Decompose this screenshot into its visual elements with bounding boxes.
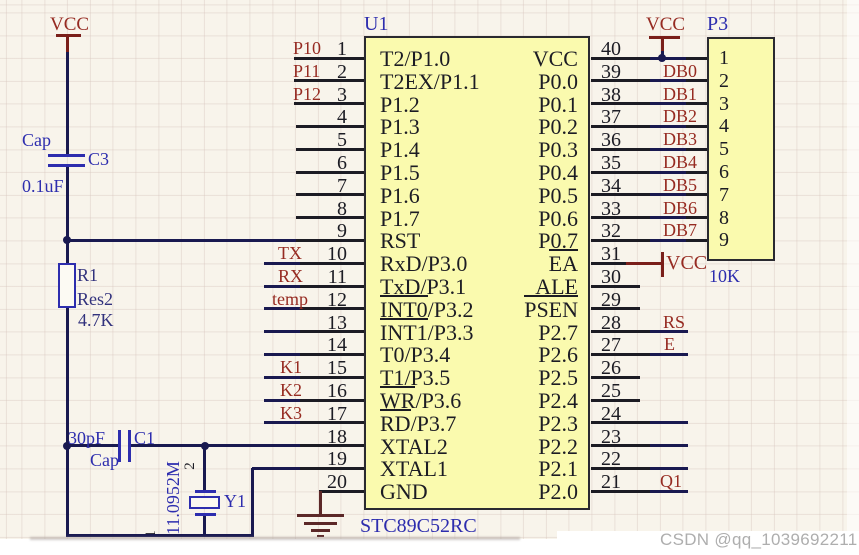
U1 pin 39	[591, 79, 650, 82]
U1 pin 11	[264, 285, 300, 288]
U1 pin 24	[591, 421, 650, 424]
ground	[319, 491, 322, 514]
value 0.1uF	[22, 176, 64, 194]
U1 pin 12	[264, 307, 300, 310]
U1 pin 1	[294, 57, 365, 60]
net label DB1	[663, 84, 697, 102]
wire	[66, 52, 69, 155]
U1 pin 22	[591, 467, 650, 470]
U1 pin 27	[591, 353, 650, 356]
capacitor C1	[118, 430, 121, 462]
P3 pin 9	[686, 239, 707, 242]
value 10K	[709, 266, 740, 284]
P3 pin 6	[686, 171, 707, 174]
P3 pin 8	[686, 216, 707, 219]
P3 pin 4	[686, 125, 707, 128]
wire	[67, 444, 119, 447]
crystal Y1	[195, 490, 216, 493]
U1 pin 9	[296, 239, 365, 242]
U1 pin 3	[294, 102, 365, 105]
net label RX	[278, 266, 303, 284]
net label Q1	[660, 471, 682, 489]
P3 pin 3	[686, 102, 707, 105]
power symbol VCC (left rail)	[50, 14, 89, 33]
wire	[661, 51, 664, 59]
U1 pin 21	[591, 490, 650, 493]
U1 pin 40	[591, 57, 650, 60]
net label DB4	[663, 152, 697, 170]
net label K2	[280, 380, 302, 398]
U1 pin 33	[591, 216, 650, 219]
capacitor C3	[48, 154, 85, 157]
U1 pin 7	[296, 193, 365, 196]
U1 pin 18	[300, 444, 364, 447]
net label E	[664, 334, 675, 352]
wire	[66, 167, 69, 537]
U1 pin 36	[591, 148, 650, 151]
wire	[131, 444, 365, 447]
U1 pin 15	[264, 376, 300, 379]
resistor R1	[58, 263, 76, 308]
U1 pin 2	[294, 79, 365, 82]
net label DB2	[663, 106, 697, 124]
U1 pin 29	[591, 307, 640, 310]
power symbol VCC (P3 pin 1)	[646, 14, 685, 33]
net label DB7	[663, 220, 697, 238]
net label P11	[293, 61, 320, 79]
value 11.0952M	[163, 453, 181, 543]
net label TX	[278, 243, 302, 261]
U1 pin 16	[264, 399, 300, 402]
Y1 pin 1 number	[143, 524, 161, 544]
U1 pin 28	[591, 330, 650, 333]
U1 pin 17	[264, 421, 300, 424]
wire	[251, 468, 254, 537]
wire	[66, 534, 254, 537]
designator U1	[364, 13, 388, 33]
U1 pin 4	[296, 125, 365, 128]
wire	[203, 516, 206, 538]
connector P3	[707, 37, 775, 261]
watermark	[660, 530, 855, 550]
wire	[203, 446, 206, 490]
net label temp	[272, 289, 308, 307]
junction (XTAL2 node)	[201, 442, 209, 450]
U1 pin 30	[591, 285, 640, 288]
net label DB5	[663, 175, 697, 193]
net label P10	[293, 38, 321, 56]
IC U1	[364, 36, 590, 510]
U1 pin 32	[591, 239, 650, 242]
junction (C1 left node)	[63, 442, 71, 450]
part number STC89C52RC	[360, 515, 477, 535]
net label DB3	[663, 129, 697, 147]
designator R1	[77, 265, 98, 283]
U1 pin 31	[591, 262, 626, 265]
designator Y1	[224, 491, 246, 509]
net label P12	[293, 84, 321, 102]
label Cap (C1 comment)	[90, 450, 119, 468]
junction (pin 40 node)	[658, 54, 666, 62]
label Cap (C3 comment)	[22, 130, 51, 148]
designator C1	[134, 428, 155, 446]
U1 pin 23	[591, 444, 650, 447]
power symbol VCC (pin 31)	[626, 262, 663, 265]
U1 pin 34	[591, 193, 650, 196]
wire	[252, 467, 364, 470]
U1 pin 37	[591, 125, 650, 128]
U1 pin 6	[296, 171, 365, 174]
value 4.7K	[78, 310, 114, 328]
wire	[67, 239, 300, 242]
net label DB0	[663, 61, 697, 79]
U1 pin 13	[264, 330, 300, 333]
U1 pin 38	[591, 102, 650, 105]
net label K1	[280, 357, 302, 375]
net label DB6	[663, 198, 697, 216]
net label K3	[280, 403, 302, 421]
P3 pin 7	[686, 193, 707, 196]
P3 pin 5	[686, 148, 707, 151]
value 30pF	[68, 428, 105, 446]
U1 pin 19	[300, 467, 364, 470]
U1 pin 5	[296, 148, 365, 151]
U1 pin 35	[591, 171, 650, 174]
label Res2	[77, 289, 113, 307]
U1 pin 20	[319, 490, 365, 493]
U1 pin 8	[296, 216, 365, 219]
P3 pin 1	[686, 57, 707, 60]
U1 pin 14	[264, 353, 300, 356]
junction (RST node)	[63, 236, 71, 244]
U1 pin 26	[591, 376, 640, 379]
net label RS	[663, 312, 685, 330]
P3 pin 2	[686, 79, 707, 82]
designator C3	[88, 149, 109, 167]
Y1 pin 2 number	[182, 456, 200, 476]
U1 pin 25	[591, 399, 640, 402]
U1 pin 10	[264, 262, 300, 265]
designator P3	[707, 13, 728, 33]
